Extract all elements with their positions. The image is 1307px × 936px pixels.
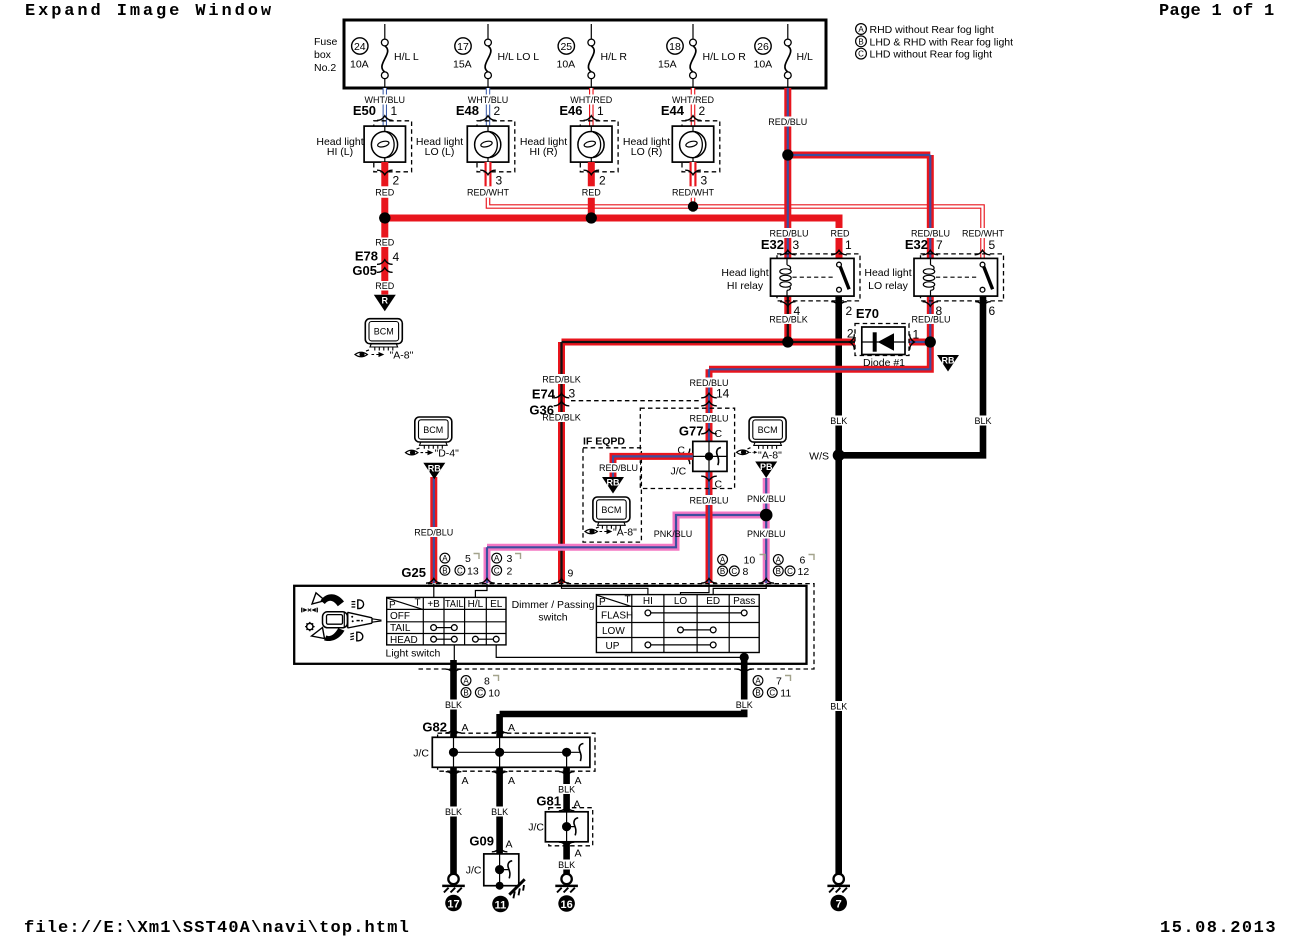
svg-text:B: B [755,689,760,698]
svg-text:B: B [720,567,725,576]
svg-text:A: A [462,722,469,734]
svg-text:3: 3 [793,238,800,252]
fuse 26 10A H/L [754,24,814,88]
svg-text:7: 7 [836,898,842,910]
svg-text:EL: EL [490,599,503,610]
svg-text:B: B [442,566,447,575]
svg-text:Head light: Head light [721,267,768,279]
node W/S junction [809,449,845,462]
connector pins below switch A8/BC10 [441,669,501,710]
wire PNK/BLU from PB marker to G25 [744,478,789,583]
wire light switch TAIL output to G82 [453,645,456,737]
svg-text:"A-8": "A-8" [390,350,414,362]
svg-text:RED: RED [582,188,602,198]
ground at G09 (slanted) [509,879,524,898]
svg-text:5: 5 [989,238,996,252]
wire BLK G82 to ground 17 [441,767,467,873]
svg-text:LO: LO [674,596,688,607]
wire RED/BLU from BCM D-4 marker RB to G25 [412,477,456,583]
wire from G25 pin9 to dimmer switch HI [562,584,648,595]
svg-text:RED/WHT: RED/WHT [962,229,1004,239]
wire from G25 to light switch H/L [475,584,487,598]
junction PNK/BLU [760,509,773,522]
svg-text:"A-8": "A-8" [758,450,782,462]
svg-text:10A: 10A [350,59,369,71]
svg-text:C: C [769,689,775,698]
wire RED/BLK from E32 HI pin4 to diode and E74 [540,296,862,583]
headlight bulb E46 Head light HI (R) [520,103,618,172]
svg-text:8: 8 [936,304,943,318]
svg-text:"D-4": "D-4" [435,448,460,460]
svg-text:A: A [463,677,469,686]
svg-text:Expand Image Window: Expand Image Window [25,2,274,21]
svg-text:15A: 15A [453,59,472,71]
svg-text:12: 12 [798,566,810,578]
svg-text:A: A [506,839,513,851]
svg-text:10A: 10A [557,59,576,71]
svg-text:1: 1 [597,104,604,118]
svg-text:Light switch: Light switch [386,648,441,660]
connector G25 [401,565,814,669]
svg-text:H/L LO L: H/L LO L [498,51,540,63]
svg-text:18: 18 [669,41,681,53]
svg-text:25: 25 [560,41,572,53]
svg-text:PB: PB [760,462,773,472]
svg-text:E74: E74 [532,387,556,402]
fuse box No.2 outline [314,20,826,88]
svg-text:G25: G25 [401,565,426,580]
svg-text:RB: RB [607,478,620,488]
svg-text:HI (R): HI (R) [530,146,558,158]
svg-text:LOW: LOW [602,626,625,637]
wire WHT/BLU fuse17 to E48 pin2 [466,88,510,130]
svg-text:A: A [462,775,469,787]
relay E32 Head light LO relay [864,228,1006,318]
svg-text:3: 3 [507,553,513,565]
svg-text:A: A [776,556,782,565]
wire RED/BLU from E32 LO pin8 to diode junction [906,296,954,342]
junction at E32 HI pin4 / diode pin2 [782,336,793,347]
wire from G25 to dimmer switch ED [713,584,766,595]
svg-text:16: 16 [560,899,572,911]
wire RED/WHT from E44 pin3 [670,162,716,198]
svg-text:ED: ED [706,596,720,607]
ground 17 [442,874,465,912]
wire PNK/BLU branch to G25 H/L pin [487,515,766,583]
svg-text:BLK: BLK [830,702,847,712]
G25 pin labels A5/BC13 [440,553,479,577]
marker R arrow to BCM [374,295,396,312]
svg-text:8: 8 [743,566,749,578]
svg-text:3: 3 [569,387,576,401]
dimmer / passing switch table [596,595,759,653]
junction connector G09 J/C [466,834,519,890]
junction connector G81 J/C [528,794,592,860]
legend variant B: LHD &amp; RHD with Rear fog light [856,36,1014,48]
BCM module (D-4) [406,417,460,460]
svg-text:+B: +B [427,599,440,610]
diode E70 Diode #1 [847,306,920,369]
svg-text:1: 1 [913,328,920,342]
svg-text:B: B [463,689,468,698]
svg-text:C: C [858,50,864,59]
svg-text:A: A [508,722,515,734]
svg-text:PNK/BLU: PNK/BLU [654,529,693,539]
svg-text:A: A [755,677,761,686]
svg-text:3: 3 [701,174,708,188]
fuse 25 10A H/L R [557,24,628,88]
svg-text:G82: G82 [422,720,447,735]
svg-text:R: R [382,295,389,305]
svg-text:5: 5 [465,553,471,565]
wire RED/BLU from G77 to BCM (IF EQPD) [596,456,693,477]
svg-text:"A-8": "A-8" [613,527,637,539]
svg-text:11: 11 [780,688,791,700]
svg-text:8: 8 [484,676,490,688]
svg-text:1: 1 [845,238,852,252]
wire RED/WHT bus to E32 pin5 [488,198,983,262]
svg-text:C: C [731,567,737,576]
svg-text:E48: E48 [456,103,479,118]
svg-text:Head light: Head light [864,267,911,279]
svg-text:J/C: J/C [466,865,482,877]
svg-text:TAIL: TAIL [390,623,411,634]
wire RED/BLU from diode junction to G77 (upper part) [687,342,930,444]
svg-text:A: A [575,848,582,860]
svg-text:2: 2 [494,104,501,118]
junction EL/Pass output [740,653,749,662]
BCM module (IF EQPD, A-8) [585,497,637,539]
svg-text:C: C [477,689,483,698]
svg-text:TAIL: TAIL [445,599,464,610]
conditional block IF EQPD [583,436,641,543]
wire from G25 to light switch +B [433,584,435,598]
headlight bulb E44 Head light LO (R) [623,103,720,172]
svg-text:HI: HI [643,596,653,607]
svg-text:RED/WHT: RED/WHT [467,188,509,198]
svg-text:J/C: J/C [528,822,544,834]
wire BLK G82 to G09 [487,767,513,854]
svg-text:C: C [787,567,793,576]
svg-text:T: T [625,595,631,606]
svg-text:J/C: J/C [413,748,429,760]
headlight bulb E50 Head light HI (L) [316,103,411,172]
svg-text:LO (L): LO (L) [425,146,455,158]
svg-text:H/L R: H/L R [601,51,628,63]
svg-text:14: 14 [716,387,730,401]
svg-text:RED: RED [375,281,395,291]
wire RED from E50 pin2 [373,162,400,198]
wire light switch EL output to Pass junction [496,645,744,658]
svg-text:HEAD: HEAD [390,635,418,646]
svg-text:P: P [389,600,396,611]
svg-text:RED/BLK: RED/BLK [769,315,808,325]
wire WHT/RED fuse25 to E46 pin1 [569,88,614,130]
legend variant A: RHD without Rear fog light [856,24,994,36]
svg-text:RED/BLU: RED/BLU [689,414,728,424]
svg-text:G81: G81 [536,794,561,809]
G25 pin labels A6/BC12 [773,555,814,578]
relay E32 Head light HI relay [721,228,860,318]
connector E74/G36 [529,387,729,418]
svg-text:A: A [508,775,515,787]
ground 7 [827,874,850,912]
G25 pin labels A10/BC8 [718,555,765,578]
svg-text:C: C [457,566,463,575]
svg-text:G36: G36 [529,403,554,418]
svg-text:13: 13 [467,565,479,577]
svg-text:LO relay: LO relay [868,280,908,292]
svg-text:RHD without Rear fog light: RHD without Rear fog light [870,24,994,36]
svg-text:switch: switch [538,612,567,624]
stalk switch icon [302,593,382,641]
svg-text:H/L: H/L [797,51,814,63]
junction RED bus at E50 (overlay) [379,212,390,223]
marker PB below BCM A-8 [755,462,777,479]
fuse 18 15A H/L LO R [658,24,746,88]
svg-text:RED/BLK: RED/BLK [542,375,581,385]
junction at diode pin1 / E32 LO pin8 [925,336,936,347]
BCM module (A-8, left) [355,319,414,362]
svg-text:Page 1 of 1: Page 1 of 1 [1159,2,1275,21]
wire RED bus E50/E46 to E32 pin1 [385,198,839,262]
junction RED/BLU at fuse26 drop [782,149,793,160]
svg-text:Dimmer / Passing: Dimmer / Passing [512,599,595,611]
wire BLK G82 to G81 [554,767,580,812]
svg-text:2: 2 [699,104,706,118]
svg-text:2: 2 [507,565,513,577]
svg-text:T: T [415,597,421,608]
svg-text:10: 10 [488,688,500,700]
svg-text:H/L L: H/L L [394,51,419,63]
wire RED from bus to BCM via E78/G05 [373,218,397,295]
svg-text:A: A [494,554,500,563]
svg-text:E70: E70 [856,306,879,321]
wire RED/WHT from E48 pin3 [465,162,511,198]
fuse 17 15A H/L LO L [453,24,539,88]
svg-text:W/S: W/S [809,450,829,462]
svg-text:Fuse: Fuse [314,36,338,48]
svg-text:7: 7 [776,676,782,688]
svg-text:C: C [715,479,723,491]
svg-text:RED: RED [375,238,395,248]
svg-text:15.08.2013: 15.08.2013 [1160,919,1277,936]
svg-text:RED: RED [830,229,850,239]
svg-text:2: 2 [847,327,854,341]
svg-text:HI relay: HI relay [727,280,764,292]
wire RED from E46 pin2 [580,162,607,198]
wire WHT/RED fuse18 to E44 pin2 [670,88,715,130]
svg-text:BLK: BLK [830,416,847,426]
wire RED/BLU from fuse26 to E32 pins 3 and 7 [766,88,930,262]
svg-text:11: 11 [495,899,507,911]
svg-text:A: A [442,554,448,563]
svg-text:E46: E46 [559,103,582,118]
svg-text:box: box [314,49,332,61]
svg-text:IF EQPD: IF EQPD [583,436,625,448]
BCM module (A-8, right) [737,417,787,462]
svg-text:H/L: H/L [468,599,484,610]
wire RED/BLU from G77 to G25 [687,469,731,583]
svg-text:3: 3 [496,174,503,188]
junction RED bus at E46 [586,212,597,223]
svg-text:24: 24 [354,41,366,53]
svg-text:4: 4 [393,250,400,264]
svg-text:A: A [720,556,726,565]
light switch table [386,597,507,659]
headlight bulb E48 Head light LO (L) [416,103,515,172]
junction RED bus at E50 [379,212,390,223]
svg-text:C: C [494,566,500,575]
svg-text:B: B [858,37,863,46]
connector E78/G05 [352,249,399,279]
svg-text:G77: G77 [679,424,704,439]
svg-text:RED/BLU: RED/BLU [689,496,728,506]
ground 16 [555,874,578,912]
ground 11 [492,896,509,913]
svg-text:E44: E44 [661,103,685,118]
svg-text:LHD & RHD with Rear fog light: LHD & RHD with Rear fog light [870,36,1014,48]
G25 pin labels A3/C2 [492,553,521,577]
wire BLK Pass output to G82 [500,657,745,737]
svg-text:E50: E50 [353,103,376,118]
svg-text:1: 1 [391,104,398,118]
svg-text:HI (L): HI (L) [327,146,353,158]
svg-text:A: A [858,25,864,34]
marker RB (IF EQPD) [602,477,624,494]
junction E44 on RED/WHT bus [688,201,698,211]
wire BLK from E32 LO pin6 to W/S junction [841,292,996,455]
svg-text:BLK: BLK [445,807,462,817]
svg-text:BLK: BLK [736,700,753,710]
wire from G25 to dimmer switch LO [681,584,710,595]
svg-text:6: 6 [800,555,806,567]
svg-text:H/L LO R: H/L LO R [703,51,747,63]
svg-text:7: 7 [936,238,943,252]
svg-text:RED/BLU: RED/BLU [768,117,807,127]
svg-text:BLK: BLK [558,860,575,870]
svg-text:RED/WHT: RED/WHT [672,188,714,198]
svg-text:RED/BLU: RED/BLU [769,229,808,239]
svg-text:P: P [599,597,606,608]
fuse 24 10A H/L L [350,24,419,88]
svg-text:BLK: BLK [491,807,508,817]
svg-text:RED/BLU: RED/BLU [414,528,453,538]
connector pins below switch A7/BC11 [731,669,791,710]
svg-text:BLK: BLK [445,700,462,710]
svg-text:E78: E78 [355,249,378,264]
legend variant C: LHD without Rear fog light [856,48,993,60]
svg-text:UP: UP [606,641,620,652]
svg-text:9: 9 [568,568,574,580]
svg-text:RED: RED [375,188,395,198]
svg-text:E32: E32 [761,237,784,252]
marker RB below BCM D-4 [423,463,445,480]
svg-text:RED/BLU: RED/BLU [911,315,950,325]
svg-text:B: B [776,567,781,576]
svg-text:C: C [715,428,723,440]
svg-text:A: A [574,799,581,811]
svg-text:RB: RB [428,463,441,473]
svg-text:RB: RB [942,356,955,366]
svg-text:LO (R): LO (R) [631,146,663,158]
svg-text:6: 6 [989,304,996,318]
svg-text:file://E:\Xm1\SST40A\navi\top.: file://E:\Xm1\SST40A\navi\top.html [24,919,410,936]
svg-text:RED/BLU: RED/BLU [599,463,638,473]
svg-text:17: 17 [447,898,459,910]
svg-text:Diode #1: Diode #1 [863,357,905,369]
svg-text:BLK: BLK [974,416,991,426]
junction connector G82 J/C [413,720,595,788]
wire WHT/BLU fuse24 to E50 pin1 [363,88,407,130]
svg-text:J/C: J/C [671,466,687,478]
svg-text:LHD without Rear fog light: LHD without Rear fog light [870,49,993,61]
svg-text:No.2: No.2 [314,62,336,74]
svg-text:G05: G05 [352,263,377,278]
svg-text:OFF: OFF [390,611,410,622]
svg-text:E32: E32 [905,237,928,252]
svg-text:2: 2 [599,174,606,188]
wire BLK from E32 HI pin2 to ground 7 [826,292,852,874]
svg-text:FLASH: FLASH [601,610,633,621]
svg-text:4: 4 [794,304,801,318]
svg-text:RED/BLU: RED/BLU [911,229,950,239]
marker RB below diode junction [937,355,959,372]
svg-text:26: 26 [757,41,769,53]
combination switch assembly box [294,586,806,664]
svg-text:Pass: Pass [733,596,755,607]
svg-text:2: 2 [393,174,400,188]
svg-text:17: 17 [457,41,469,53]
svg-text:10A: 10A [754,59,773,71]
svg-text:2: 2 [846,304,853,318]
svg-text:15A: 15A [658,59,677,71]
svg-text:PNK/BLU: PNK/BLU [747,494,786,504]
svg-text:PNK/BLU: PNK/BLU [747,529,786,539]
wire BLK G81 to ground 16 [554,842,580,874]
junction connector G77 J/C [640,408,734,490]
svg-text:G09: G09 [469,834,494,849]
svg-text:10: 10 [744,555,756,567]
